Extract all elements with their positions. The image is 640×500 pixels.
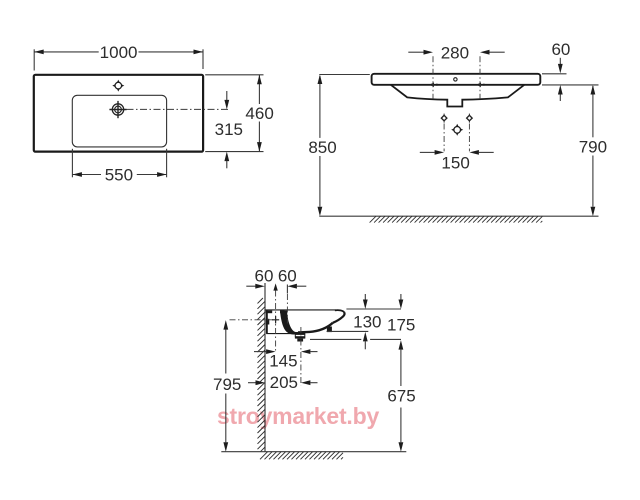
svg-text:130: 130 <box>353 313 381 332</box>
svg-text:850: 850 <box>308 138 336 157</box>
svg-text:280: 280 <box>441 43 469 62</box>
svg-text:795: 795 <box>213 375 241 394</box>
svg-text:60: 60 <box>255 267 274 286</box>
svg-text:145: 145 <box>269 351 297 370</box>
svg-text:675: 675 <box>387 386 415 405</box>
svg-text:1000: 1000 <box>100 43 138 62</box>
svg-text:550: 550 <box>105 165 133 184</box>
svg-text:60: 60 <box>551 40 570 59</box>
svg-text:stroymarket.by: stroymarket.by <box>217 403 380 429</box>
svg-text:60: 60 <box>278 267 297 286</box>
svg-text:205: 205 <box>270 373 298 392</box>
svg-text:175: 175 <box>387 316 415 335</box>
svg-text:460: 460 <box>245 104 273 123</box>
svg-text:150: 150 <box>441 153 469 172</box>
svg-text:315: 315 <box>215 120 243 139</box>
svg-text:790: 790 <box>579 138 607 157</box>
